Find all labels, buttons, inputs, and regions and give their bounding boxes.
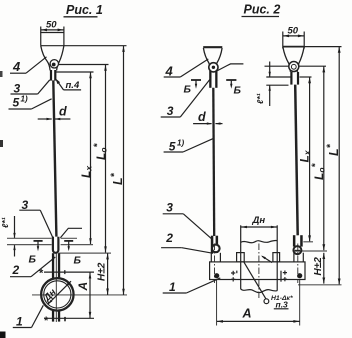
rod end clevis left fig2 (211, 236, 214, 253)
title Рис.1 (66, 3, 103, 17)
rod (tyaga poz.5) fig1 (53, 80, 56, 236)
dimension Дн fig2 (241, 226, 278, 228)
svg-text:d: d (198, 110, 206, 124)
bracket right fig2 (293, 253, 295, 262)
svg-text:Б: Б (184, 84, 192, 96)
label 4 fig2 (165, 63, 174, 78)
dimension 50 fig2 (282, 32, 284, 49)
label 1 fig2 (169, 280, 176, 294)
callout Н1-Δк* п.3 fig2 (244, 262, 266, 299)
pipe axis centerline fig2 (258, 244, 260, 301)
label 3 fig1 lower (22, 198, 29, 212)
dimension A fig1 (89, 272, 91, 318)
clamp straps fig1 (52, 253, 54, 278)
lug fig2 right hanger (283, 46, 304, 48)
hook leader fig1 (60, 228, 82, 238)
svg-text:*: * (39, 268, 44, 280)
scan mark square bottom left (0, 332, 6, 338)
label 2 fig2 (165, 231, 173, 245)
lug U1 fig1 (poz.4 ear) (41, 33, 64, 46)
weld + marks fig2 left (231, 272, 235, 274)
lug hole fig2 right (289, 62, 299, 72)
svg-text:d: d (59, 105, 67, 119)
svg-text:Рис. 1: Рис. 1 (66, 3, 103, 17)
svg-text:Дн: Дн (252, 215, 266, 226)
center lines fig1 pipe (32, 294, 127, 296)
pin left fig2 (212, 245, 220, 253)
extension lines rod end fig1 (7, 238, 111, 253)
svg-text:2: 2 (12, 263, 20, 277)
bracket left fig2 (210, 253, 212, 262)
clevis (rod head) fig1 (50, 70, 52, 81)
label п.4 callout fig1 (55, 78, 60, 84)
Дн diameter arrow fig1 (48, 281, 71, 304)
dimension l*1 fig1 (0, 217, 10, 228)
pipe circle fig1 (poz.1 clamp) (41, 278, 73, 310)
pin right fig2 (293, 246, 301, 254)
pipe break line bottom fig2 (241, 289, 278, 293)
dimension line Lx fig2 (309, 77, 311, 242)
dimension l*1 fig2 (269, 62, 271, 77)
dimension line L* fig2 (338, 47, 340, 285)
section mark Б left fig1 (34, 240, 43, 242)
lug hole fig2 left (209, 63, 218, 72)
svg-text:*: * (44, 315, 49, 327)
dimension line L0* fig1 (105, 65, 107, 253)
dimension line L0* fig2 (323, 66, 325, 250)
svg-text:Н±2: Н±2 (313, 257, 324, 276)
svg-text:Рис. 2: Рис. 2 (244, 3, 281, 17)
label 1 fig1 (16, 315, 23, 329)
dimension line Lx fig1 (90, 72, 92, 244)
clevis fig2 left (209, 71, 211, 88)
svg-text:п.4: п.4 (66, 80, 80, 91)
svg-text:4: 4 (165, 63, 174, 78)
rod end U loop fig1 (53, 237, 59, 253)
rod fig2 right (295, 85, 298, 236)
rod end clevis right fig2 (293, 235, 296, 246)
lug hole fig1 (50, 60, 58, 68)
svg-text:Н±2: Н±2 (97, 262, 108, 281)
svg-text:1: 1 (169, 280, 176, 294)
svg-text:А: А (76, 282, 90, 292)
svg-text:50: 50 (288, 26, 299, 37)
svg-text:п.3: п.3 (276, 300, 289, 310)
hanger centerlines fig2 (214, 244, 216, 284)
svg-text:Б: Б (74, 255, 82, 267)
stray leader from pin fig2 (216, 64, 244, 72)
rod fig2 left (212, 88, 215, 236)
svg-text:ℓ*¹: ℓ*¹ (255, 93, 265, 104)
svg-text:5: 5 (13, 96, 20, 110)
label 3 fig2 lower (166, 201, 173, 215)
svg-text:Б: Б (29, 254, 37, 266)
bolts fig2 (214, 273, 219, 278)
pipe outline fig2 (240, 225, 242, 289)
label 2 fig1 (12, 263, 20, 277)
svg-text:3: 3 (167, 104, 174, 118)
extension line clevis fig1 (56, 71, 94, 73)
svg-text:1: 1 (16, 315, 23, 329)
clamp tick lines fig1 (44, 271, 94, 273)
svg-text:3: 3 (166, 201, 173, 215)
dimension 50 fig1 (40, 27, 42, 33)
svg-text:50: 50 (46, 20, 57, 31)
dimension H±2 fig2 (323, 253, 325, 284)
label 3 fig2 (167, 104, 174, 118)
label 3 fig1 upper (14, 82, 21, 96)
section mark Б right fig2 (226, 79, 236, 81)
svg-text:4: 4 (12, 59, 21, 74)
extension lines fig2 right hanger (304, 46, 341, 48)
dimension H±2 fig1 (107, 253, 109, 294)
svg-text:ℓ*¹: ℓ*¹ (0, 217, 10, 228)
lug fig2 left hanger (203, 46, 222, 48)
dimension d fig2 (198, 110, 206, 124)
svg-text:1): 1) (21, 95, 28, 104)
label 5 1) fig1 (13, 95, 28, 110)
dimension A fig2 (216, 280, 218, 326)
label 4 fig1 (12, 59, 21, 74)
dimension line L* fig1 (123, 46, 125, 295)
svg-text:1): 1) (177, 139, 184, 148)
weld + marks fig2 right (280, 271, 282, 282)
beam (poz.1) fig2 (210, 262, 305, 280)
svg-text:А: А (242, 307, 252, 321)
extension line hole center fig1 (59, 64, 109, 66)
svg-text:Б: Б (234, 85, 242, 97)
title Рис.2 (244, 3, 281, 17)
saddle posts fig2 (237, 253, 245, 262)
svg-text:2: 2 (165, 231, 173, 245)
clevis fig2 right (290, 72, 292, 85)
section mark Б left fig2 (191, 79, 201, 81)
section mark Б right fig1 (64, 240, 73, 242)
scan specks left margin (0, 71, 3, 77)
pipe break line top fig2 (241, 240, 278, 242)
dimension d fig1 (59, 105, 67, 119)
label 5 1) fig2 (169, 139, 185, 154)
